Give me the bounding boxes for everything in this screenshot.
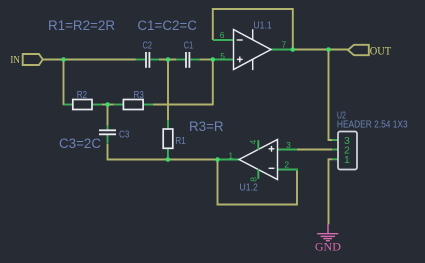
svg-text:2: 2: [284, 159, 289, 169]
wire C2 to C1 through node B: [159, 59, 177, 61]
pin wire R3 pin2: [143, 104, 153, 106]
junction at IN node A: [61, 57, 66, 62]
pin wire C2 pin1: [136, 59, 145, 61]
pin wire C2 pin2: [150, 59, 159, 61]
capacitor C1: [186, 52, 189, 68]
junction R1 bottom node: [166, 157, 171, 162]
svg-text:R2: R2: [77, 90, 88, 101]
connector U2 header: [338, 132, 357, 170]
wire C3 lower to bottom rail: [107, 144, 109, 161]
wire U1.2 pin3 to header pin 2: [297, 149, 333, 151]
ground GND: [317, 224, 338, 240]
wire header pin1 to GND: [329, 159, 333, 224]
pin wire header pin3: [332, 139, 338, 141]
junction C2-C1 node B: [166, 57, 171, 62]
pin wire R2 pin2: [92, 104, 102, 106]
svg-text:C1: C1: [184, 40, 194, 51]
pin wire C3 pin2: [107, 134, 109, 143]
junction U1.2 output node: [215, 157, 220, 162]
pin wire U1.2 pin3: [278, 149, 297, 151]
svg-text:5: 5: [220, 51, 225, 61]
wire between R2 and R3: [102, 104, 114, 106]
wire C3 upper: [107, 104, 109, 126]
wire junction A to C2: [64, 59, 136, 61]
port OUT: [348, 45, 369, 55]
svg-text:IN: IN: [10, 54, 19, 66]
svg-text:6: 6: [220, 30, 225, 40]
pin wire R3 pin1: [114, 104, 124, 106]
wire riser up to node C: [212, 60, 214, 106]
svg-text:C3=2C: C3=2C: [59, 136, 101, 151]
pin wire R1 pin1: [167, 120, 169, 129]
wire C2C1 junction down to R1: [167, 59, 169, 120]
resistor R2: [73, 100, 92, 110]
svg-text:C2: C2: [143, 40, 153, 51]
pin wire C1 pin1: [176, 59, 185, 61]
op-amp U1.2: [239, 140, 278, 180]
pin wire R1 pin2: [167, 148, 169, 159]
pin wire U1.2 pin2: [278, 170, 298, 172]
wire R3 to riser at node C: [153, 104, 213, 106]
svg-text:C3: C3: [119, 129, 130, 140]
svg-text:U1.2: U1.2: [240, 182, 258, 194]
pin wire U1.1 pin5: [214, 59, 234, 61]
pin wire U1.2 pin4 (V+): [257, 140, 259, 150]
wire output to OUT port: [293, 49, 348, 51]
pin wire U1.2 pin1: [218, 159, 240, 161]
junction node C at U1.1 pin5: [211, 57, 216, 62]
svg-text:8: 8: [249, 177, 259, 182]
op-amp U1.1: [234, 29, 272, 70]
wire OUT branch down to header pin 3: [329, 50, 333, 141]
wire feedback loop U1.1: [213, 9, 293, 50]
pin wire U1.2 pin8 (V-): [257, 169, 259, 179]
junction R2-R3 node D: [105, 102, 110, 107]
capacitor C3: [99, 130, 116, 134]
port IN: [23, 54, 43, 65]
junction U1.1 output node: [291, 47, 296, 52]
svg-text:HEADER 2.54 1X3: HEADER 2.54 1X3: [337, 120, 408, 131]
pin wire header pin1: [332, 158, 338, 160]
wire bottom rail: [107, 159, 218, 161]
pin wire U1.1 pin6: [213, 39, 234, 41]
resistor R1: [163, 129, 173, 148]
svg-text:C1=C2=C: C1=C2=C: [137, 18, 197, 33]
resistor R3: [123, 100, 143, 110]
wire feedback loop U1.2: [218, 160, 298, 205]
pin wire C3 pin1: [107, 126, 109, 131]
svg-text:U1.1: U1.1: [253, 19, 271, 31]
svg-text:R3=R: R3=R: [189, 119, 224, 134]
svg-text:3: 3: [286, 140, 291, 150]
wire IN port to junction A: [43, 59, 64, 61]
svg-text:R3: R3: [134, 90, 145, 101]
svg-text:R1=R2=2R: R1=R2=2R: [48, 18, 115, 33]
pin wire header pin2: [332, 149, 338, 151]
svg-text:1: 1: [228, 151, 233, 161]
svg-text:R1: R1: [175, 136, 186, 147]
pin wire C1 pin2: [190, 59, 199, 61]
wire C1 to node C: [199, 59, 213, 61]
junction OUT branch node: [326, 47, 331, 52]
pin wire R2 pin1: [64, 104, 73, 106]
svg-text:1: 1: [344, 154, 350, 166]
svg-text:4: 4: [248, 140, 258, 145]
svg-text:7: 7: [282, 39, 287, 49]
svg-text:OUT: OUT: [370, 46, 391, 58]
wire junction A down: [63, 59, 65, 106]
svg-text:GND: GND: [315, 241, 341, 253]
capacitor C2: [146, 52, 149, 68]
pin wire U1.1 pin7: [271, 49, 293, 51]
